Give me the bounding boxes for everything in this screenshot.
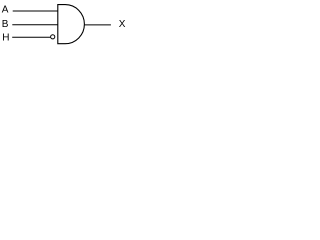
svg-text:A: A <box>2 5 9 16</box>
svg-text:H: H <box>2 33 9 44</box>
wire B <box>12 24 58 26</box>
svg-text:B: B <box>2 19 9 30</box>
wire X output <box>85 24 111 26</box>
wire H <box>12 36 50 38</box>
AND gate U1 body <box>58 5 85 44</box>
svg-text:X: X <box>119 19 126 30</box>
inversion bubble on H input <box>51 35 55 39</box>
wire A <box>13 10 58 12</box>
